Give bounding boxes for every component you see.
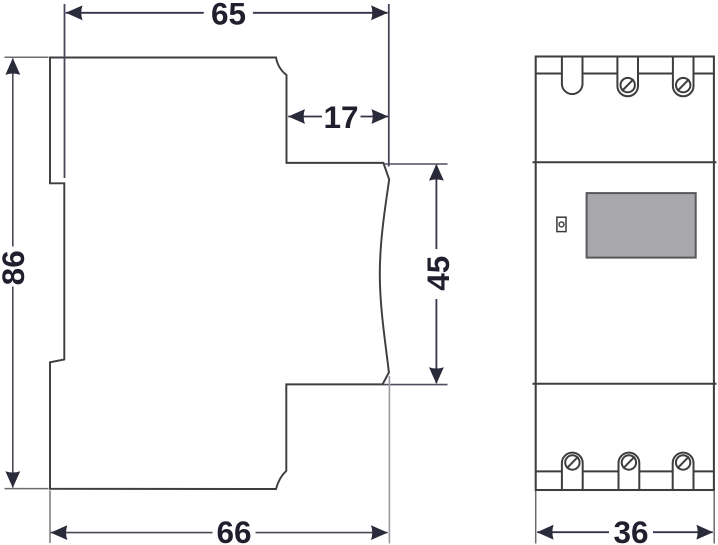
front view top cover line: [536, 73, 714, 75]
dim 65 arrow left: [66, 5, 83, 20]
dim 66 extension line left: [49, 491, 51, 544]
dim 86 arrow top: [5, 58, 20, 75]
dim 17 line: [288, 116, 322, 118]
front view bottom terminal slot 3: [673, 453, 694, 490]
dim 65 extension line left: [64, 4, 66, 178]
dim 45 arrow top: [429, 164, 444, 181]
dim 86 arrow bottom: [5, 471, 20, 488]
dim 86 line: [12, 59, 14, 247]
dim 66 arrow right: [371, 525, 388, 540]
front view top screw 3: [676, 78, 690, 92]
dim 45 arrow bottom: [429, 367, 444, 384]
dim 36 arrow right: [696, 525, 713, 540]
dim 65 extension line right: [388, 4, 390, 167]
front view top terminal slot 3: [673, 57, 694, 97]
front view mid line upper: [533, 161, 717, 163]
svg-text:66: 66: [216, 514, 251, 545]
dim 36 line: [537, 531, 609, 533]
svg-text:86: 86: [0, 250, 31, 285]
svg-text:65: 65: [211, 0, 246, 31]
dim 45 line: [435, 165, 437, 249]
dim 66 extension line right: [388, 376, 390, 544]
dim 86 extension line top: [5, 56, 49, 58]
front view top terminal slot 2: [617, 57, 638, 97]
svg-text:36: 36: [613, 514, 648, 545]
front view bottom terminal slot 2: [619, 453, 640, 490]
side view body outline: [50, 58, 389, 490]
front view bottom screw 3: [676, 455, 690, 469]
dim 17 arrow right: [372, 109, 389, 124]
dim 86 extension line bottom: [5, 488, 49, 490]
dim 45 extension line top: [384, 163, 448, 165]
dim 65 arrow right: [371, 5, 388, 20]
front view body: [536, 57, 714, 491]
dim 17 arrow left: [288, 109, 305, 124]
svg-text:45: 45: [420, 256, 456, 291]
front view button: [557, 217, 566, 231]
svg-text:17: 17: [323, 99, 358, 135]
dim 36 arrow left: [537, 525, 554, 540]
front view bottom terminal slot 1: [562, 453, 583, 490]
front view display: [587, 193, 696, 258]
front view top screw 2: [621, 78, 635, 92]
dim 36 extension line right: [713, 491, 715, 544]
front view bottom screw 1: [565, 455, 579, 469]
dim 66 line: [51, 532, 213, 534]
front view top terminal slot 1: [562, 57, 583, 95]
dim 65 line: [66, 12, 204, 14]
front view mid line lower: [533, 383, 717, 385]
dim 45 extension line bottom: [383, 384, 448, 386]
front view bottom cover line: [536, 470, 714, 472]
front view bottom screw 2: [622, 455, 636, 469]
dim 66 arrow left: [51, 525, 68, 540]
dim 36 extension line left: [535, 491, 537, 544]
